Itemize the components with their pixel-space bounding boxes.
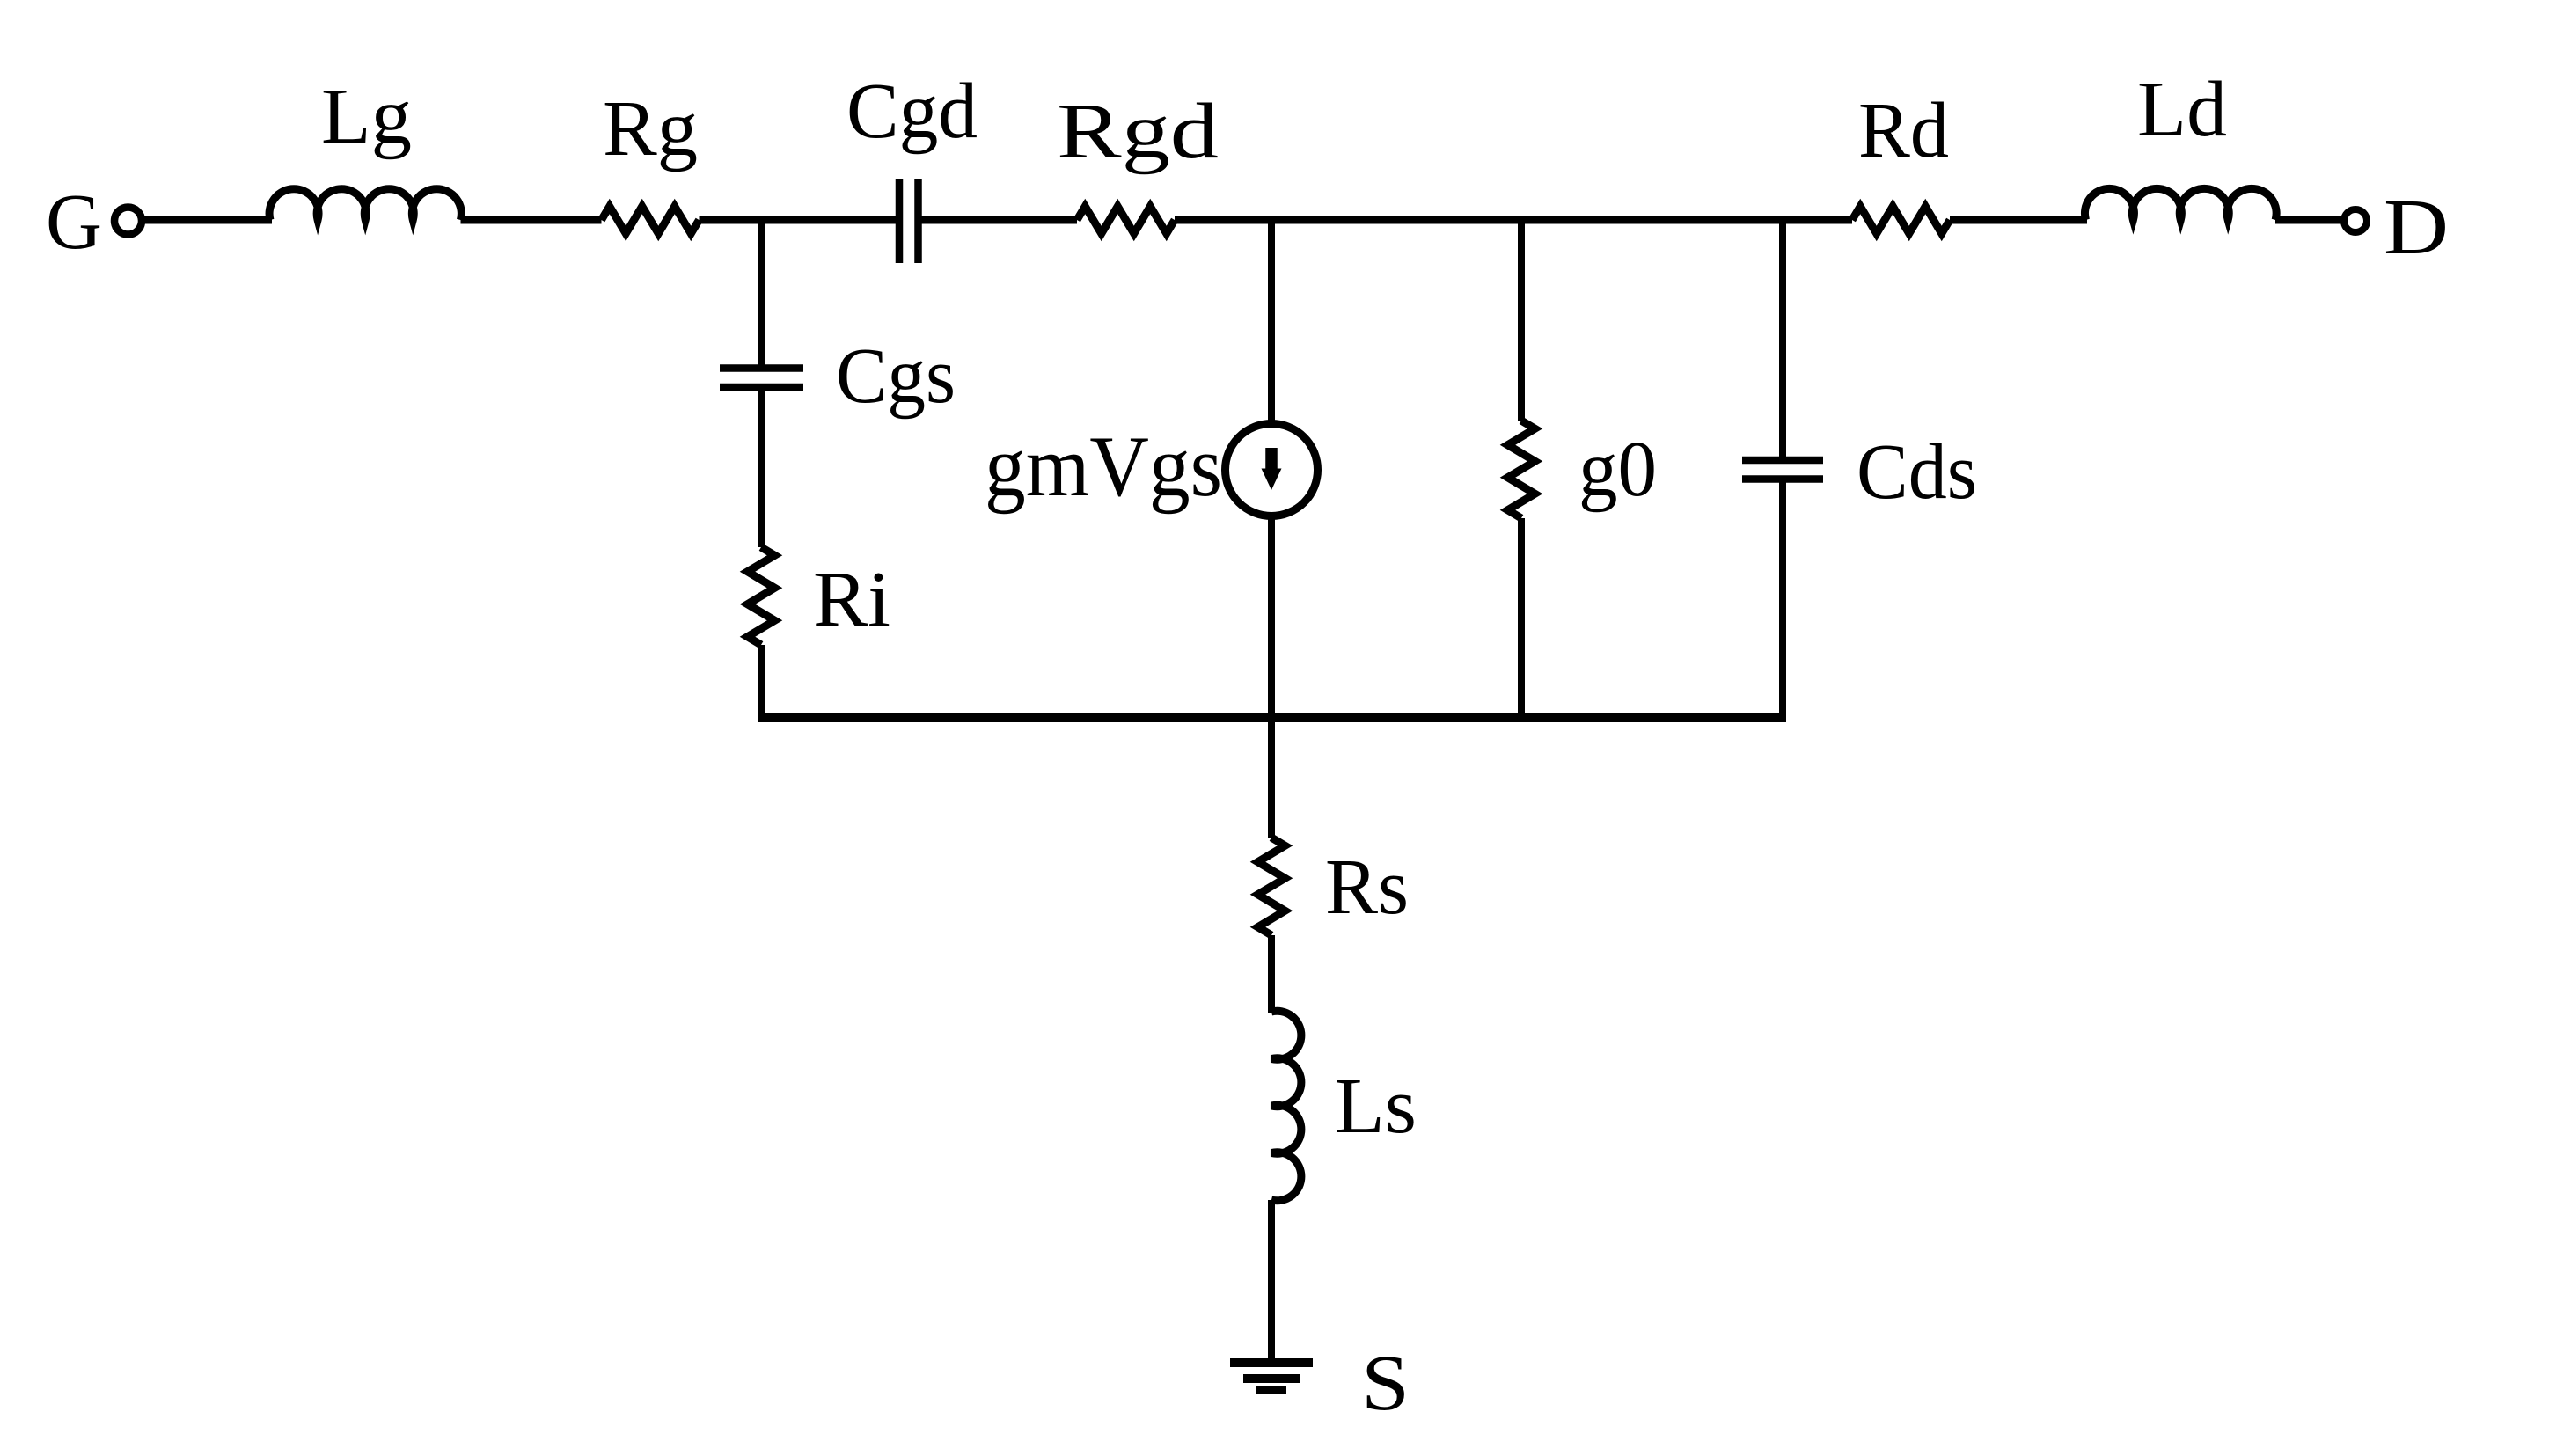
wire [700, 216, 897, 224]
ground [1230, 1358, 1313, 1367]
svg-text:Ri: Ri [813, 556, 890, 643]
capacitor Cgd [899, 179, 919, 263]
svg-text:Rgd: Rgd [1057, 88, 1219, 175]
terminal D [2344, 209, 2367, 232]
wire [758, 391, 765, 547]
resistor Rs [1258, 838, 1285, 935]
capacitor Cgs [720, 369, 803, 388]
wire Cds branch from top rail [1779, 220, 1786, 457]
svg-text:Cds: Cds [1857, 428, 1977, 516]
svg-text:Cgs: Cgs [836, 333, 956, 420]
svg-text:S: S [1361, 1340, 1410, 1427]
svg-text:Rs: Rs [1325, 844, 1409, 931]
inductor Ls [1271, 1011, 1301, 1201]
wire [922, 216, 1078, 224]
svg-text:Lg: Lg [321, 73, 412, 160]
current source gmVgs [1226, 424, 1318, 516]
svg-text:g0: g0 [1578, 426, 1657, 513]
wire [1950, 216, 2087, 224]
capacitor Cds [1742, 460, 1823, 479]
svg-text:gmVgs: gmVgs [985, 419, 1222, 515]
wire [1268, 516, 1275, 838]
inductor Lg [269, 189, 461, 220]
wire bottom rail [761, 713, 1786, 722]
svg-text:G: G [46, 179, 102, 266]
resistor Rgd [1077, 207, 1175, 234]
wire g0 branch from top rail [1518, 220, 1525, 421]
wire [461, 216, 602, 224]
wire [758, 645, 765, 722]
wire [1779, 483, 1786, 723]
wire [144, 216, 272, 224]
wire [1268, 1200, 1275, 1363]
wire [1518, 518, 1525, 722]
wire [1175, 216, 1852, 224]
wire [1268, 935, 1275, 1013]
svg-text:Cgd: Cgd [846, 68, 978, 155]
resistor Rg [602, 207, 700, 234]
wire node A down from top rail [758, 220, 765, 365]
svg-text:Ls: Ls [1335, 1063, 1417, 1150]
resistor Ri [748, 547, 775, 645]
svg-text:Rg: Rg [603, 85, 698, 172]
wire [2275, 216, 2343, 224]
resistor Rd [1852, 207, 1950, 234]
svg-text:Ld: Ld [2137, 66, 2227, 153]
terminal G [114, 208, 142, 235]
svg-text:D: D [2384, 184, 2449, 271]
wire gmVgs branch from top rail [1268, 220, 1275, 424]
svg-text:Rd: Rd [1858, 87, 1949, 174]
inductor Ld [2084, 188, 2276, 220]
resistor g0 [1508, 421, 1535, 518]
